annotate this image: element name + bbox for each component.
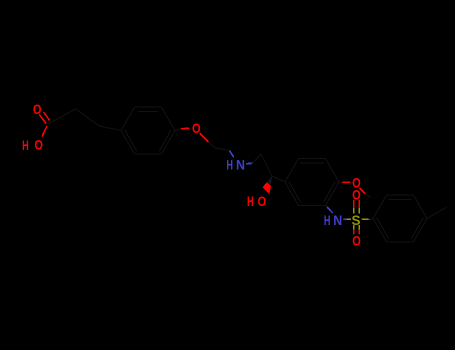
svg-text:O: O	[33, 101, 42, 117]
CH-ring2 bond	[272, 176, 285, 182]
svg-text:O: O	[352, 232, 361, 248]
C-OH bond	[42, 127, 47, 137]
wire chain bond CH2-ring	[100, 126, 122, 131]
svg-text:H: H	[226, 157, 233, 173]
svg-text:O: O	[34, 137, 43, 153]
benzene ring 2	[285, 159, 339, 206]
benzene ring 1	[121, 107, 175, 154]
ring2 to methoxy O bond	[339, 181, 343, 183]
S=O upper double bond	[353, 208, 355, 214]
ring 1 double bonds	[139, 111, 158, 113]
ring2 to sulfonamide N bond	[326, 205, 328, 207]
ring 2 double bonds	[301, 162, 324, 164]
O-CH3 bond	[360, 189, 365, 194]
N-CH2 bond	[247, 162, 253, 164]
svg-text:H: H	[247, 193, 254, 209]
benzene ring 3 (tosyl)	[373, 195, 427, 242]
wire chain bond C-CH2	[48, 109, 76, 124]
O-CH2 bond	[200, 134, 209, 143]
methyl bond on ring3	[427, 208, 446, 219]
svg-text:H: H	[324, 212, 331, 228]
svg-text:O: O	[258, 193, 267, 209]
svg-text:N: N	[333, 212, 342, 228]
S=O lower double bond	[353, 226, 355, 231]
C=O double bond	[40, 115, 46, 123]
ring 3 double bonds	[389, 199, 412, 201]
CH2-CH bond	[261, 154, 272, 176]
N-S bond	[344, 218, 347, 220]
stereo wedge to OH	[263, 182, 271, 194]
svg-text:N: N	[236, 157, 245, 173]
S-ring3 bond	[362, 218, 369, 220]
CH2-CH2 bond	[215, 148, 228, 150]
CH2-N bond	[228, 149, 230, 152]
ring1 to ether O bond	[175, 129, 182, 131]
wire chain bond CH2-CH2	[76, 109, 100, 126]
svg-text:O: O	[352, 187, 361, 203]
svg-text:H: H	[22, 137, 29, 153]
